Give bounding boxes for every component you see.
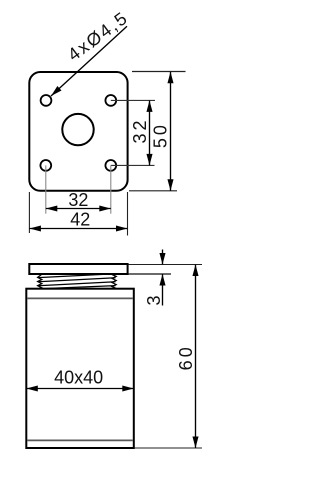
body outline (side view) [26, 289, 134, 448]
dim line 50 vertical [167, 72, 173, 191]
ext line for dim 3 bottom [129, 273, 172, 275]
ext line from top-right hole [111, 99, 155, 101]
collar line top [27, 297, 133, 299]
svg-text:3: 3 [144, 295, 164, 305]
dim 40x40 [26, 385, 134, 391]
ext line top for dim 60 / 3 [129, 264, 203, 266]
ext line from bottom-left hole (down) [45, 165, 47, 213]
plate side view [29, 264, 127, 274]
ext line bottom for dim 60 [135, 447, 203, 449]
ext line plate left (down) [28, 192, 30, 233]
thread crest line 2 [38, 278, 116, 282]
hole top-left [41, 95, 52, 106]
ext line top for dim 50 [132, 71, 186, 73]
hole top-right [105, 95, 116, 106]
dim line 42 horizontal bottom [29, 225, 127, 231]
svg-text:32: 32 [68, 190, 88, 210]
hole bottom-right [105, 160, 116, 171]
dim line 32 vertical [146, 100, 152, 165]
hole bottom-left [40, 160, 51, 171]
ext line plate right (down) [127, 192, 129, 236]
thread crest line 1 [38, 274, 116, 278]
thread crest line 3 [38, 282, 116, 286]
dim 3 [159, 250, 165, 306]
svg-text:32: 32 [130, 117, 150, 143]
thread right zigzag [112, 275, 116, 289]
collar line bottom [27, 439, 133, 441]
center bore circle [62, 114, 93, 145]
mounting plate outline (top view) [29, 72, 127, 191]
svg-text:60: 60 [176, 344, 196, 370]
leader line for hole label [51, 26, 127, 96]
thread left zigzag [38, 274, 42, 288]
dim 60 [192, 265, 198, 449]
svg-text:40x40: 40x40 [54, 368, 103, 388]
svg-text:42: 42 [70, 209, 90, 229]
dim line 32 horizontal bottom [46, 205, 111, 211]
svg-text:50: 50 [151, 122, 171, 148]
ext line from bottom-right hole (right) [111, 164, 155, 166]
ext line from bottom-right hole (down) [110, 165, 112, 213]
ext line bottom for dim 50 [129, 190, 177, 192]
thread crest line 4 [40, 286, 116, 289]
